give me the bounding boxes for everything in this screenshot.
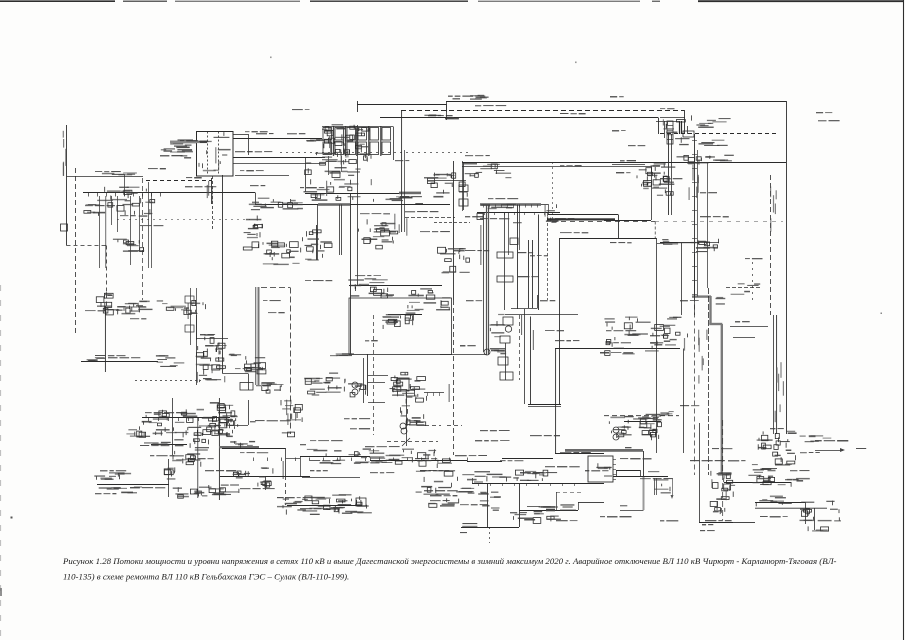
svg-text:110-135) в схеме ремонта ВЛ 1: 110-135) в схеме ремонта ВЛ 110 кВ Гельб… bbox=[63, 572, 349, 582]
svg-text:Рисунок 1.28 Потоки мощности и: Рисунок 1.28 Потоки мощности и уровни на… bbox=[62, 556, 837, 566]
